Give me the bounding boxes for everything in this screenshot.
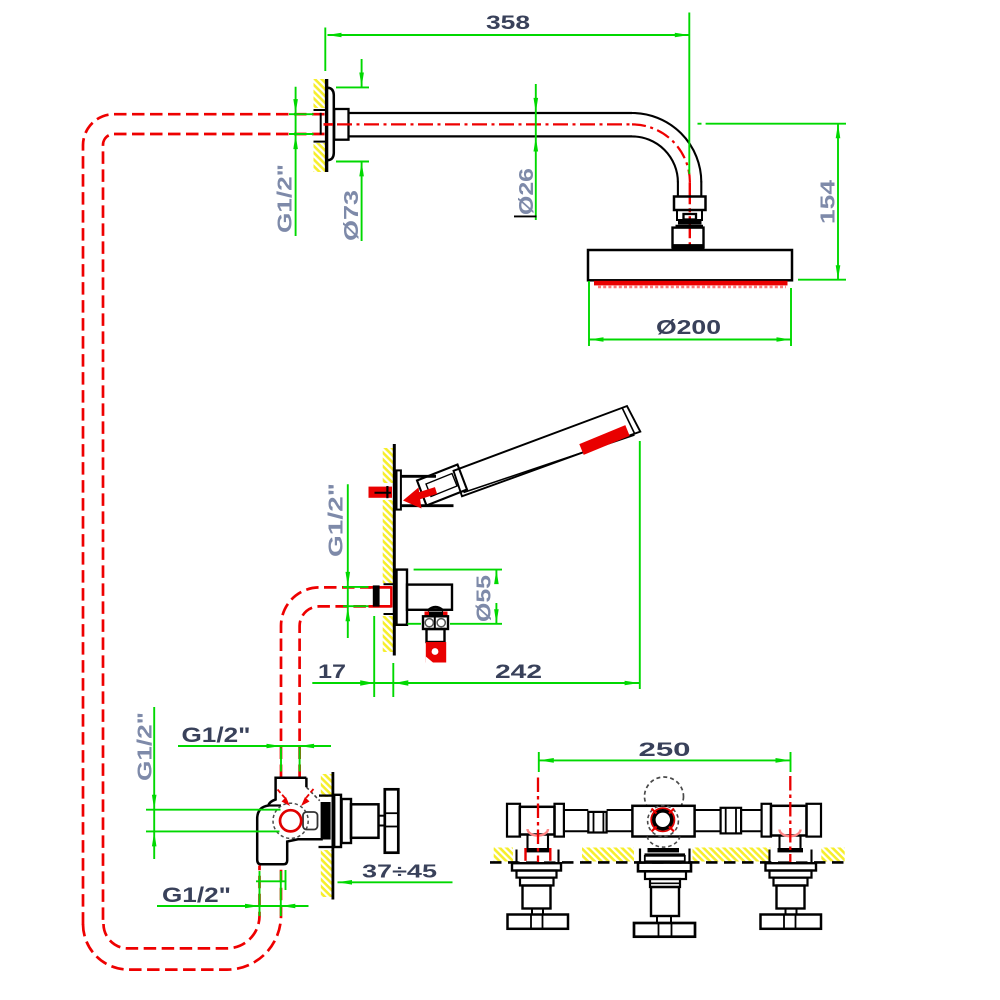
svg-text:17: 17 xyxy=(318,662,346,683)
svg-text:G1/2": G1/2" xyxy=(182,723,251,747)
svg-text:154: 154 xyxy=(818,179,840,224)
svg-text:Ø200: Ø200 xyxy=(656,317,721,339)
svg-text:250: 250 xyxy=(639,740,691,761)
svg-text:G1/2": G1/2" xyxy=(135,712,157,781)
svg-text:Ø26: Ø26 xyxy=(516,168,538,215)
svg-text:37÷45: 37÷45 xyxy=(362,862,437,882)
svg-text:G1/2": G1/2" xyxy=(162,883,231,907)
svg-text:Ø55: Ø55 xyxy=(474,575,496,622)
svg-text:242: 242 xyxy=(495,662,542,683)
svg-text:G1/2": G1/2" xyxy=(326,483,348,557)
svg-text:358: 358 xyxy=(486,13,530,34)
svg-text:Ø73: Ø73 xyxy=(341,190,363,241)
svg-text:G1/2": G1/2" xyxy=(275,164,297,233)
